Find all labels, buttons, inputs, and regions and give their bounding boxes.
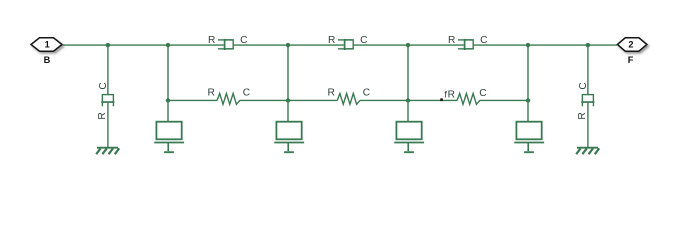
svg-text:C: C xyxy=(243,87,250,98)
black dot mark before FR label xyxy=(440,98,443,101)
ground box element 2 xyxy=(274,122,304,153)
wire middle rail dot to zigzag R1 xyxy=(168,99,217,101)
svg-text:C: C xyxy=(479,88,486,99)
junction dot top x=528 xyxy=(526,43,530,47)
svg-text:C: C xyxy=(98,82,109,89)
resistor zigzag R1 xyxy=(217,94,240,105)
svg-text:C: C xyxy=(240,35,247,46)
resistor zigzag R2 xyxy=(337,94,360,105)
wire top rail RC1 to RC2 xyxy=(233,44,345,46)
wire vertical at x=108 top xyxy=(107,45,109,95)
wire middle rail R1 to R2 xyxy=(240,99,338,101)
wire top rail RC2 to RC3 xyxy=(353,44,465,46)
svg-text:C: C xyxy=(578,82,589,89)
svg-text:C: C xyxy=(360,35,367,46)
junction dot top x=288 xyxy=(286,43,290,47)
wire middle rail R3 to dot xyxy=(480,99,529,101)
port 1 xyxy=(31,38,62,51)
wire vertical at x=588 bottom xyxy=(587,102,589,147)
svg-text:1: 1 xyxy=(45,39,50,49)
svg-text:R: R xyxy=(208,35,215,46)
wire vertical at x=528 xyxy=(527,45,529,122)
svg-text:R: R xyxy=(328,35,335,46)
svg-text:R: R xyxy=(97,112,108,119)
wire top rail RC3 to port 2 xyxy=(473,44,617,46)
junction dot middle x=528 xyxy=(526,98,530,102)
junction dot middle x=408 xyxy=(406,98,410,102)
wire vertical at x=288 xyxy=(287,45,289,122)
wire vertical at x=168 xyxy=(167,45,169,122)
series RC element 3 (R parallel C) xyxy=(458,39,473,50)
junction dot top x=408 xyxy=(406,43,410,47)
junction dot middle x=168 xyxy=(166,98,170,102)
wire vertical at x=408 xyxy=(407,45,409,122)
resistor zigzag R3 xyxy=(457,94,480,105)
ground box element 4 xyxy=(514,122,544,153)
wire vertical at x=588 top xyxy=(587,45,589,95)
svg-text:2: 2 xyxy=(628,40,633,50)
port 2 xyxy=(617,38,647,51)
shunt RC element left (R parallel C) vertical xyxy=(101,95,114,107)
svg-text:B: B xyxy=(44,55,51,65)
svg-text:F: F xyxy=(628,55,634,65)
junction dot top x=108 xyxy=(106,43,110,47)
ground box element 1 xyxy=(154,122,184,153)
svg-text:C: C xyxy=(480,35,487,46)
wire vertical at x=108 bottom xyxy=(107,102,109,147)
svg-text:C: C xyxy=(363,87,370,98)
ground earth right xyxy=(576,148,599,155)
junction dot top x=168 xyxy=(166,43,170,47)
series RC element 1 (R parallel C) xyxy=(218,39,233,50)
ground earth left xyxy=(96,148,119,155)
ground box element 3 xyxy=(394,122,424,153)
svg-text:R: R xyxy=(328,87,335,98)
junction dot top x=588 xyxy=(586,43,590,47)
svg-text:R: R xyxy=(577,112,588,119)
wire middle rail R2 to R3 xyxy=(360,99,457,101)
svg-text:R: R xyxy=(208,87,215,98)
junction dot middle x=288 xyxy=(286,98,290,102)
svg-text:fR: fR xyxy=(444,89,455,100)
svg-text:R: R xyxy=(448,35,455,46)
series RC element 2 (R parallel C) xyxy=(338,39,353,50)
wire top rail from port 1 to RC1 xyxy=(63,44,225,46)
shunt RC element right (R parallel C) vertical xyxy=(581,95,594,107)
